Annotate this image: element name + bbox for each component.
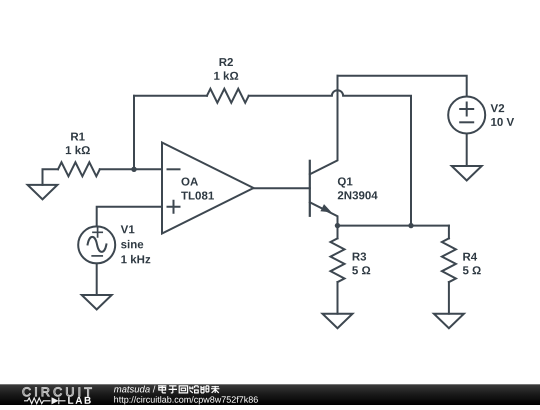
svg-text:Q1: Q1 [337,176,353,188]
svg-text:10 V: 10 V [491,117,515,129]
svg-text:V2: V2 [491,103,505,115]
svg-text:5 Ω: 5 Ω [462,265,481,277]
svg-text:1 kΩ: 1 kΩ [213,71,238,83]
svg-text:R4: R4 [462,252,477,264]
svg-text:5 Ω: 5 Ω [352,265,371,277]
svg-text:1 kHz: 1 kHz [121,254,151,266]
svg-text:R1: R1 [70,131,85,143]
svg-text:OA: OA [181,177,198,189]
svg-text:R2: R2 [219,57,234,69]
svg-text:http://circuitlab.com/cpw8w752: http://circuitlab.com/cpw8w752f7k86 [114,395,259,405]
svg-text:1 kΩ: 1 kΩ [65,145,90,157]
svg-text:R3: R3 [352,252,367,264]
svg-text:2N3904: 2N3904 [337,190,378,202]
svg-text:sine: sine [121,239,144,251]
svg-text:TL081: TL081 [181,191,215,203]
svg-text:V1: V1 [121,224,136,236]
svg-text:LAB: LAB [67,396,92,405]
